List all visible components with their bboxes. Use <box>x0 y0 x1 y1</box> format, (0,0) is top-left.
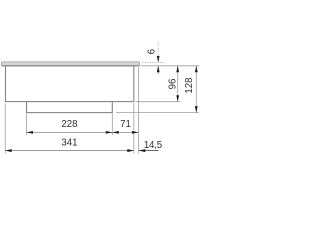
extension line base right x112.3 <box>111 114 113 136</box>
extension line plate bottom right <box>141 65 200 67</box>
svg-text:341: 341 <box>61 138 77 149</box>
dimension 341 right arrow <box>127 149 134 152</box>
dimension 96 line <box>177 66 179 102</box>
upper body box <box>6 66 134 102</box>
dimension 71 line <box>113 131 139 133</box>
extension line body right x133.8 <box>133 103 135 154</box>
dimension 6 lower arrow <box>157 66 160 73</box>
dimension 341 line <box>6 150 134 152</box>
extension line plate end x138.5 <box>138 67 140 154</box>
dimension 14,5 arrow and tail <box>139 150 159 152</box>
dimension 6 upper line <box>157 42 159 57</box>
dimension 96 top arrow <box>176 66 179 73</box>
svg-text:128: 128 <box>184 77 195 93</box>
dimension 128 bottom arrow <box>195 106 198 113</box>
dimension 228 right arrow <box>106 131 113 134</box>
dimension 128 line <box>195 66 197 112</box>
cooktop glass plate <box>1 62 139 66</box>
extension line left x5 <box>4 104 6 154</box>
dimension 341 left arrow <box>5 149 12 152</box>
svg-text:71: 71 <box>120 119 131 130</box>
dimension 96 bottom arrow <box>176 95 179 102</box>
extension line from body bottom right <box>136 101 181 103</box>
extension line from base bottom right <box>116 112 199 114</box>
dimension 71 right arrow <box>132 131 139 134</box>
dimension 71 left arrow <box>112 131 119 134</box>
svg-text:14,5: 14,5 <box>144 140 162 151</box>
dimension 6 upper arrow <box>157 56 160 63</box>
dimension 128 top arrow <box>195 66 198 73</box>
dimension 6 lower line <box>157 66 159 75</box>
dimension 228 line <box>27 131 112 133</box>
svg-text:6: 6 <box>147 49 158 54</box>
extension line base left x26.5 <box>26 114 28 136</box>
dashed extension line plate top <box>143 61 165 63</box>
dimension 228 left arrow <box>27 131 34 134</box>
lower base box <box>27 102 113 113</box>
svg-text:228: 228 <box>61 119 77 130</box>
svg-text:96: 96 <box>167 79 178 90</box>
